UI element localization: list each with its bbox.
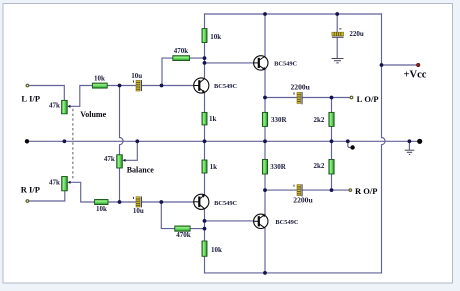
- resistor R11 330R (R emitter load): [262, 160, 267, 175]
- wire R input to volume pot bottom: [29, 191, 65, 201]
- junction top rail / Q2 collector: [263, 12, 267, 16]
- wire right vertical +V with hop over ground rail: [382, 14, 386, 273]
- wire R output node to 2200u cap: [265, 189, 297, 191]
- svg-text:330R: 330R: [271, 116, 288, 124]
- wire Q4 emitter up to R output node: [264, 190, 266, 214]
- wire balance wiper to ground rail: [125, 141, 138, 160]
- capacitor C1 10u (L input coupling): [133, 80, 141, 91]
- svg-text:47k: 47k: [49, 178, 60, 186]
- junction node C (lower 10k/10u/balance): [118, 200, 122, 204]
- wire lower 10u cap to Q3 base (node D): [142, 201, 194, 203]
- resistor R12 2k2 (R output load): [329, 160, 334, 175]
- junction L output node / Q2 emitter: [263, 96, 267, 100]
- wire 2k2 R6 top leg: [331, 98, 333, 113]
- junction node B (470k/base Q1): [160, 84, 164, 88]
- svg-text:R I/P: R I/P: [21, 184, 40, 194]
- junction Q1 collector / Q2 base: [203, 61, 207, 65]
- resistor R10 1k (Q3 emitter): [202, 160, 207, 173]
- wire +Vcc terminal feed: [382, 64, 417, 66]
- potentiometer VR1b 47k (R volume): [62, 177, 71, 191]
- wire 2200u cap to R O/P terminal: [302, 189, 349, 191]
- capacitor C3 220u (supply decoupling): [332, 29, 344, 37]
- capacitor C4 2200u (L output coupling): [294, 92, 302, 104]
- svg-text:1k: 1k: [210, 163, 218, 171]
- svg-text:L O/P: L O/P: [357, 94, 379, 104]
- wire Q2 emitter down to L output node: [264, 70, 266, 98]
- capacitor C5 2200u (R output coupling): [294, 184, 302, 196]
- wire 2200u cap to L O/P terminal: [302, 97, 350, 99]
- wire Q1 emitter to 1k R4: [204, 93, 206, 113]
- wire Q4 collector down to bottom rail: [264, 228, 266, 273]
- wire L output node to 2200u cap: [265, 97, 297, 99]
- junction ground rail / test point stub: [346, 139, 350, 143]
- wire mid ground rail: [27, 140, 420, 142]
- potentiometer VR1a 47k (L volume): [62, 100, 71, 113]
- wire L volume wiper to 10k: [70, 86, 93, 107]
- svg-text:L I/P: L I/P: [21, 94, 40, 104]
- svg-text:10k: 10k: [96, 205, 107, 213]
- wire bottom +V rail: [205, 272, 382, 274]
- wire top +V rail: [205, 13, 382, 15]
- svg-text:1k: 1k: [209, 115, 217, 123]
- svg-text:10u: 10u: [133, 207, 144, 215]
- svg-text:470k: 470k: [174, 47, 189, 55]
- wire balance pot bottom to node C: [119, 168, 121, 202]
- svg-text:47k: 47k: [49, 102, 60, 110]
- junction R output node / Q4 emitter: [263, 188, 267, 192]
- wire ground rail stub to test point: [348, 141, 351, 147]
- junction ground rail / right ground symbol: [408, 139, 412, 143]
- terminal R O/P: [349, 189, 352, 192]
- transistor Q2 BC549C: [254, 56, 268, 70]
- junction bottom rail / Q4 collector: [263, 271, 267, 275]
- resistor R2 10k (Q1 collector load): [202, 29, 207, 43]
- svg-text:470k: 470k: [176, 231, 191, 239]
- wire Q1 collector up through nodes to 10k R2: [204, 43, 206, 79]
- wire 220u cap to ground symbol: [336, 37, 338, 58]
- svg-text:Volume: Volume: [80, 110, 106, 119]
- resistor R4 1k (Q1 emitter): [202, 112, 207, 125]
- wire lower 2k2 top leg: [331, 141, 333, 159]
- resistor R5 330R (L emitter load): [262, 112, 267, 126]
- wire Q2 collector to top rail: [264, 14, 266, 56]
- wire 470k R3 right leg to Q1 collector node: [190, 57, 205, 59]
- wire 10k R8 bottom to bottom +V rail: [204, 256, 206, 273]
- junction ground rail / 2k2 resistors: [330, 139, 334, 143]
- terminal L input: [26, 84, 29, 87]
- svg-text:10u: 10u: [131, 72, 142, 80]
- gang link dashed line between volume pot wipers: [72, 109, 74, 181]
- wire node A down to balance pot top with hop over ground rail: [120, 86, 124, 155]
- resistor R9 470k (Q3 feedback): [175, 226, 190, 231]
- svg-text:BC549C: BC549C: [214, 83, 237, 90]
- wire lower 2k2 to R output node: [331, 174, 333, 190]
- terminal test point (black): [350, 145, 354, 149]
- wire 1k R4 bottom to ground rail: [204, 125, 206, 141]
- wire 470k R9 right leg to Q3 collector node: [190, 228, 204, 230]
- wire L output node down through 330R to ground rail: [264, 98, 266, 113]
- svg-text:47k: 47k: [104, 155, 115, 163]
- junction ground rail / 330R resistors: [263, 139, 267, 143]
- svg-text:R O/P: R O/P: [355, 186, 377, 196]
- junction top rail / 220u: [335, 12, 339, 16]
- wire Q1 collector node to Q2 base: [205, 62, 254, 64]
- svg-text:220u: 220u: [349, 30, 364, 38]
- svg-text:330R: 330R: [270, 163, 287, 171]
- junction node A (10k/10u/balance): [118, 84, 122, 88]
- wire Q3 collector node to Q4 base: [205, 220, 254, 222]
- wire ground rail down through 330R lower leg: [264, 141, 266, 159]
- svg-text:2200u: 2200u: [290, 83, 310, 92]
- junction L output / 2k2: [330, 96, 334, 100]
- wire 10k R2 top to +V top rail: [204, 14, 206, 29]
- junction Q3 collector / Q4 base: [203, 219, 207, 223]
- wire lower 330R to R output node: [264, 174, 266, 190]
- wire Q3 emitter up to 1k R10: [204, 173, 206, 195]
- ground symbol (below 220u): [332, 59, 344, 63]
- wire 1k R10 top to ground rail: [204, 141, 206, 160]
- transistor Q1 BC549C: [194, 78, 209, 93]
- svg-text:10k: 10k: [211, 246, 222, 254]
- wire top rail to 220u cap: [336, 14, 338, 32]
- wire 2k2 R6 bottom to ground rail: [331, 126, 333, 141]
- svg-text:BC549C: BC549C: [274, 61, 297, 68]
- resistor R6 2k2 (L output load): [329, 112, 334, 126]
- terminal L O/P: [350, 96, 353, 99]
- wire R volume wiper to lower 10k: [70, 182, 95, 202]
- svg-text:+Vcc: +Vcc: [404, 70, 427, 81]
- junction node D (470k/base Q3): [159, 200, 163, 204]
- svg-text:10k: 10k: [210, 33, 221, 41]
- transistor Q4 BC549C: [254, 214, 268, 228]
- svg-text:2200u: 2200u: [293, 195, 313, 204]
- junction ground rail / volume pots: [63, 139, 67, 143]
- svg-text:2k2: 2k2: [313, 162, 324, 170]
- wire 330R bottom to ground rail: [264, 126, 266, 141]
- wire 470k R3 left leg to node B: [162, 58, 173, 85]
- svg-text:10k: 10k: [94, 75, 105, 83]
- svg-text:BC549C: BC549C: [275, 219, 298, 226]
- junction Q3 collector / 470k: [203, 227, 207, 231]
- resistor R3 470k (Q1 feedback): [173, 56, 190, 61]
- wire Q3 collector down through nodes to 10k R8: [204, 209, 206, 241]
- resistor R1 10k (L series): [92, 83, 107, 88]
- capacitor C2 10u (R input coupling): [133, 196, 141, 207]
- wire ground rail to right ground symbol: [408, 141, 410, 150]
- potentiometer VR2 47k (balance): [117, 155, 126, 168]
- terminal +Vcc (red): [417, 63, 420, 66]
- junction ground rail / 1k resistors: [203, 139, 207, 143]
- svg-text:2k2: 2k2: [313, 116, 324, 124]
- junction right vertical / +Vcc feed: [380, 63, 384, 67]
- transistor Q3 BC549C: [194, 194, 209, 209]
- junction Q1 collector / 470k: [203, 56, 207, 60]
- ground symbol (right of ground rail): [405, 150, 415, 154]
- junction ground rail / balance wiper: [135, 139, 139, 143]
- resistor R8 10k (Q3 collector load): [202, 241, 207, 256]
- svg-text:BC549C: BC549C: [214, 200, 237, 207]
- junction R output / 2k2: [330, 188, 334, 192]
- wire 10k to 10u cap (node A): [107, 85, 136, 87]
- svg-text:Balance: Balance: [127, 166, 155, 175]
- terminal R input: [26, 200, 29, 203]
- terminal ground rail left (black): [25, 139, 29, 143]
- resistor R7 10k (R series): [95, 200, 108, 205]
- wire lower 10k to lower 10u cap (node C): [108, 201, 136, 203]
- wire 470k R9 left leg to node D: [161, 202, 175, 229]
- wire 10u cap to Q1 base (node B): [142, 85, 194, 87]
- terminal ground rail right (black): [417, 139, 422, 144]
- wire L input to volume pot top: [29, 86, 64, 101]
